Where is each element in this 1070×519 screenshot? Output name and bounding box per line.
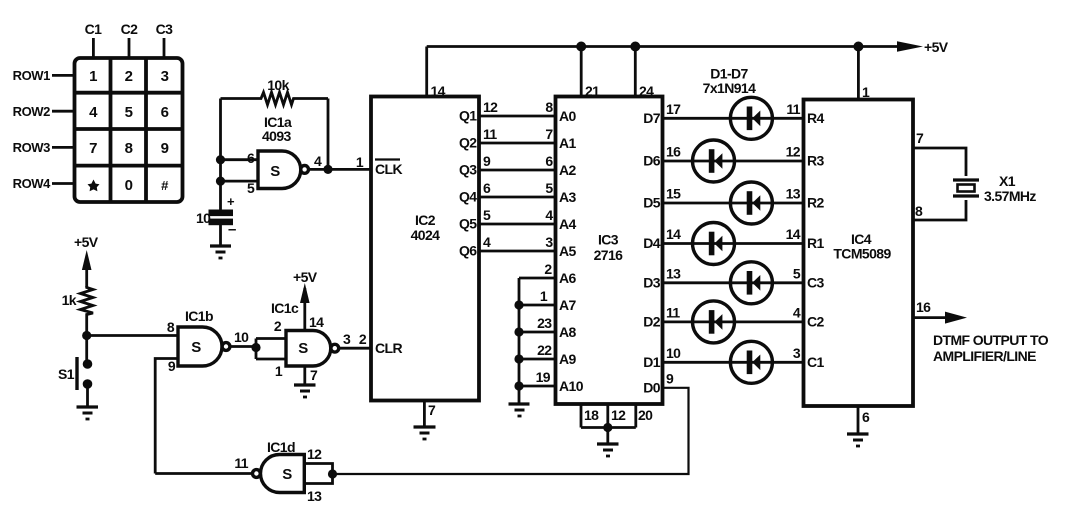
svg-text:4: 4 (314, 153, 322, 169)
wire Q3-A2 (479, 169, 556, 172)
node junction IC1a in5 (216, 177, 225, 186)
node junction bottom pins (603, 423, 612, 432)
svg-text:12: 12 (786, 144, 801, 160)
svg-text:1: 1 (89, 68, 97, 85)
svg-text:A0: A0 (559, 108, 577, 124)
svg-text:1k: 1k (62, 292, 77, 308)
svg-text:8: 8 (915, 203, 923, 219)
svg-text:3.57MHz: 3.57MHz (984, 188, 1036, 204)
svg-text:S: S (191, 339, 201, 356)
crystal X1 (953, 173, 1036, 204)
wire D7-R4 (663, 117, 804, 120)
svg-text:2716: 2716 (594, 247, 624, 263)
svg-text:19: 19 (536, 369, 551, 385)
svg-text:A1: A1 (559, 135, 577, 151)
svg-text:D6: D6 (643, 153, 661, 169)
wire Q4-A3 (479, 196, 556, 199)
svg-text:Q5: Q5 (459, 216, 477, 232)
svg-text:4024: 4024 (411, 227, 441, 243)
svg-text:10: 10 (666, 345, 681, 361)
ground address bus (509, 404, 530, 416)
wire IC3 pin21 stub (580, 47, 583, 97)
wire IC1c input tie (256, 337, 286, 340)
svg-text:3: 3 (793, 345, 801, 361)
wire junction to IC1b pin8 (87, 334, 178, 337)
wire IC1d output (155, 472, 252, 475)
svg-text:R2: R2 (807, 195, 825, 211)
ground IC4 pin6 (847, 434, 869, 446)
resistor R 1k (62, 286, 93, 315)
svg-text:CLR: CLR (375, 340, 402, 356)
svg-text:7: 7 (428, 402, 436, 418)
wire C2 stub (128, 38, 131, 58)
svg-text:ROW3: ROW3 (13, 140, 51, 155)
wire A10 (519, 385, 556, 388)
svg-text:13: 13 (307, 488, 322, 504)
capacitor 10uF (196, 194, 236, 238)
svg-text:Q1: Q1 (459, 108, 477, 124)
svg-text:24: 24 (639, 83, 654, 99)
svg-text:Q4: Q4 (459, 189, 477, 205)
svg-text:5: 5 (247, 180, 255, 196)
wire IC4 pin8 (913, 200, 966, 220)
svg-text:23: 23 (537, 315, 552, 331)
svg-text:2: 2 (359, 331, 367, 347)
wire D2-C2 (663, 320, 804, 323)
svg-text:13: 13 (786, 186, 801, 202)
node junction A9 (514, 354, 523, 363)
ground IC1c (294, 385, 316, 397)
svg-text:9: 9 (666, 371, 674, 387)
node junction IC1c input tie (251, 343, 260, 352)
+5V arrow IC1c (300, 283, 310, 303)
wire feedback left vertical (219, 99, 222, 212)
svg-text:C2: C2 (807, 314, 825, 330)
+5V top rail (427, 45, 906, 48)
svg-text:5: 5 (483, 207, 491, 223)
svg-text:22: 22 (537, 342, 552, 358)
svg-text:6: 6 (862, 409, 870, 425)
IC3 data labels (643, 110, 661, 396)
svg-text:7: 7 (89, 140, 97, 157)
IC3 2716 box (556, 97, 663, 405)
keypad star key (88, 180, 100, 192)
diode D3 (730, 262, 772, 304)
wire A7 (519, 304, 556, 307)
svg-text:D4: D4 (643, 235, 661, 251)
svg-text:D2: D2 (643, 314, 661, 330)
wire IC1a input6 (221, 158, 259, 161)
svg-text:6: 6 (545, 153, 553, 169)
node junction S1 top (82, 331, 91, 340)
IC4 TCM5089 box (804, 100, 914, 407)
svg-text:2: 2 (274, 318, 282, 334)
svg-text:14: 14 (431, 83, 446, 99)
keypad frame (75, 58, 183, 202)
resistor R 10k (221, 77, 329, 105)
node junction IC1a in6 (216, 155, 225, 164)
svg-text:C3: C3 (156, 21, 174, 37)
svg-text:7: 7 (545, 126, 553, 142)
diode D5 (730, 182, 772, 224)
diode D2 (693, 301, 735, 343)
svg-text:4093: 4093 (262, 128, 292, 144)
wire address bus vertical (518, 278, 521, 404)
svg-text:11: 11 (234, 455, 248, 471)
wire IC4 pin16 output (913, 316, 948, 319)
svg-text:3: 3 (161, 68, 169, 85)
svg-text:+5V: +5V (293, 269, 318, 285)
svg-text:A4: A4 (559, 216, 577, 232)
wire feedback right vertical (327, 99, 330, 170)
svg-text:12: 12 (483, 99, 498, 115)
svg-text:C2: C2 (121, 21, 139, 37)
svg-text:Q6: Q6 (459, 243, 477, 259)
svg-text:7x1N914: 7x1N914 (703, 80, 756, 96)
svg-text:6: 6 (483, 180, 491, 196)
svg-text:7: 7 (310, 367, 318, 383)
svg-text:ROW2: ROW2 (13, 104, 51, 119)
svg-text:Q3: Q3 (459, 162, 477, 178)
op-amp IC1b NAND gate (167, 308, 249, 374)
svg-text:3: 3 (343, 331, 351, 347)
diode D4 (693, 223, 735, 265)
wire IC4 pin7 (913, 148, 966, 176)
svg-text:11: 11 (666, 305, 680, 321)
svg-text:+: + (227, 194, 235, 209)
svg-text:4: 4 (89, 104, 98, 121)
pin numbers A6-A10 (536, 261, 553, 385)
svg-text:11: 11 (483, 126, 497, 142)
svg-text:IC1c: IC1c (271, 300, 299, 316)
svg-text:6: 6 (161, 104, 169, 121)
svg-text:R3: R3 (807, 153, 825, 169)
svg-text:R4: R4 (807, 110, 825, 126)
svg-text:+5V: +5V (74, 234, 99, 250)
diode D1 (730, 341, 772, 383)
wire C3 stub (163, 38, 166, 58)
node junction A7 (514, 300, 523, 309)
svg-text:4: 4 (483, 234, 491, 250)
wire ROW1 (52, 74, 75, 77)
svg-text:9: 9 (168, 358, 176, 374)
svg-text:8: 8 (167, 319, 175, 335)
op-amp IC1d NAND gate mirrored (234, 439, 322, 504)
svg-text:14: 14 (786, 226, 801, 242)
svg-text:12: 12 (307, 446, 322, 462)
ground IC2 pin7 (414, 427, 436, 439)
pin numbers A side (545, 99, 553, 250)
wire IC1d inputs (304, 464, 332, 484)
svg-text:11: 11 (786, 101, 800, 117)
svg-text:+5V: +5V (924, 39, 949, 55)
wire IC3 pin24 stub (634, 47, 637, 97)
svg-text:A6: A6 (559, 270, 577, 286)
wire IC4 pin6 to ground (857, 406, 860, 434)
wire S1 to ground (86, 384, 89, 407)
wire ROW3 (52, 146, 75, 149)
op-amp IC1c NAND gate (271, 300, 339, 383)
+5V arrow (897, 41, 923, 52)
wire Q5-A4 (479, 223, 556, 226)
svg-text:2: 2 (544, 261, 552, 277)
svg-text:D5: D5 (643, 195, 661, 211)
wire IC1b output to IC1c (230, 345, 256, 348)
svg-text:5: 5 (545, 180, 553, 196)
ground IC3 bottom (597, 444, 619, 456)
svg-text:9: 9 (483, 153, 491, 169)
svg-text:A9: A9 (559, 351, 577, 367)
svg-text:Q2: Q2 (459, 135, 477, 151)
wire to ground (606, 428, 609, 445)
node junction feedback tap (323, 165, 332, 174)
wire IC2 pin14 stub (425, 47, 428, 97)
wire A6 (519, 277, 556, 280)
svg-text:IC3: IC3 (598, 232, 619, 248)
svg-text:CLK: CLK (375, 161, 402, 177)
wire D4-R1 (663, 242, 804, 245)
+5V arrow up (82, 250, 92, 270)
svg-text:20: 20 (638, 407, 653, 423)
svg-text:16: 16 (916, 299, 931, 315)
svg-text:4: 4 (545, 207, 553, 223)
IC3 bottom pins 18 12 20 bracket (581, 404, 653, 428)
svg-text:12: 12 (611, 407, 626, 423)
wire IC1c pin14 to +5V (303, 288, 306, 331)
svg-text:A5: A5 (559, 243, 577, 259)
svg-text:S: S (282, 466, 292, 483)
IC2 4024 box (371, 97, 479, 401)
svg-text:17: 17 (666, 101, 681, 117)
svg-text:D7: D7 (643, 110, 661, 126)
svg-text:IC2: IC2 (415, 212, 436, 228)
svg-text:0: 0 (125, 177, 133, 194)
switch S1 (58, 357, 92, 390)
wire IC1a input5 (221, 180, 259, 183)
svg-text:2: 2 (125, 68, 133, 85)
wire C1 stub (92, 38, 95, 58)
svg-text:1: 1 (540, 288, 548, 304)
IC2 output labels Q1-Q6 (459, 108, 477, 259)
wire cap to ground (219, 224, 222, 246)
node junction A8 (514, 327, 523, 336)
IC3 address labels (559, 108, 584, 394)
output arrow (945, 312, 967, 324)
svg-text:14: 14 (309, 314, 324, 330)
pin numbers R/C side (786, 101, 801, 361)
svg-text:15: 15 (666, 186, 681, 202)
wire IC1c pin7 to ground (303, 366, 306, 385)
wire D1-C1 (663, 361, 804, 364)
svg-text:S: S (298, 340, 308, 357)
svg-text:21: 21 (585, 83, 600, 99)
pin numbers D side left (666, 101, 681, 387)
node junction IC1d (328, 469, 337, 478)
svg-text:ROW4: ROW4 (13, 176, 52, 191)
svg-text:A2: A2 (559, 162, 577, 178)
svg-text:IC1d: IC1d (267, 439, 295, 455)
svg-text:6: 6 (247, 150, 255, 166)
svg-text:8: 8 (125, 140, 133, 157)
wire A9 (519, 358, 556, 361)
wire ROW4 (52, 182, 75, 185)
svg-text:D3: D3 (643, 275, 661, 291)
pin numbers Q side (483, 99, 498, 250)
wire resistor to junction (85, 315, 88, 360)
svg-text:14: 14 (666, 226, 681, 242)
svg-text:X1: X1 (999, 173, 1016, 189)
svg-text:D1: D1 (643, 354, 661, 370)
node junction IC4 pin1 (853, 42, 863, 52)
svg-text:AMPLIFIER/LINE: AMPLIFIER/LINE (933, 348, 1036, 364)
wire D6-R3 (663, 160, 804, 163)
wire A8 (519, 331, 556, 334)
svg-text:16: 16 (666, 144, 681, 160)
wire feedback long bottom (333, 388, 689, 474)
svg-text:3: 3 (545, 234, 553, 250)
node junction pin24 (630, 42, 640, 52)
svg-text:7: 7 (916, 130, 924, 146)
wire IC4 pin1 stub (857, 47, 860, 100)
svg-text:DTMF OUTPUT TO: DTMF OUTPUT TO (933, 332, 1049, 348)
svg-text:#: # (161, 178, 169, 193)
svg-text:A10: A10 (559, 378, 584, 394)
svg-text:5: 5 (125, 104, 133, 121)
svg-text:9: 9 (161, 140, 169, 157)
ground S1 (77, 407, 99, 419)
svg-text:S: S (270, 163, 280, 180)
svg-text:C1: C1 (807, 354, 825, 370)
wire Q1-A0 (479, 115, 556, 118)
svg-text:8: 8 (545, 99, 553, 115)
svg-text:10k: 10k (267, 77, 289, 93)
wire D5-R2 (663, 202, 804, 205)
svg-text:18: 18 (584, 407, 599, 423)
node junction A10 (514, 381, 523, 390)
wire arrow to resistor (85, 266, 88, 287)
svg-text:4: 4 (793, 305, 801, 321)
op-amp IC1a NAND gate (247, 114, 322, 196)
svg-text:–: – (228, 221, 236, 238)
svg-text:IC1b: IC1b (185, 308, 213, 324)
svg-text:13: 13 (666, 266, 681, 282)
wire IC1a output to CLK (309, 168, 372, 171)
wire IC1b pin9 (155, 359, 178, 474)
svg-text:C1: C1 (85, 21, 103, 37)
svg-text:10: 10 (234, 329, 249, 345)
svg-text:S1: S1 (58, 366, 75, 382)
svg-text:TCM5089: TCM5089 (833, 246, 891, 262)
svg-text:5: 5 (793, 266, 801, 282)
wire ROW2 (52, 110, 75, 113)
svg-text:ROW1: ROW1 (13, 68, 51, 83)
svg-text:C3: C3 (807, 275, 825, 291)
svg-text:1: 1 (862, 84, 870, 100)
wire IC2 pin7 to ground (423, 401, 426, 428)
wire D3-C3 (663, 281, 804, 284)
diode D7 (730, 97, 772, 139)
node junction pin21 (576, 42, 586, 52)
keypad digits (89, 68, 169, 194)
svg-text:A8: A8 (559, 324, 577, 340)
svg-text:1: 1 (275, 363, 283, 379)
svg-text:D0: D0 (643, 380, 661, 396)
diode D6 (693, 140, 735, 182)
wire Q2-A1 (479, 142, 556, 145)
wire IC1c output to CLR (339, 347, 371, 350)
wire Q6-A5 (479, 250, 556, 253)
svg-text:A7: A7 (559, 297, 577, 313)
IC4 input labels (807, 110, 825, 370)
svg-text:1: 1 (356, 154, 364, 170)
ground below cap (210, 246, 231, 258)
svg-text:R1: R1 (807, 235, 825, 251)
svg-text:A3: A3 (559, 189, 577, 205)
